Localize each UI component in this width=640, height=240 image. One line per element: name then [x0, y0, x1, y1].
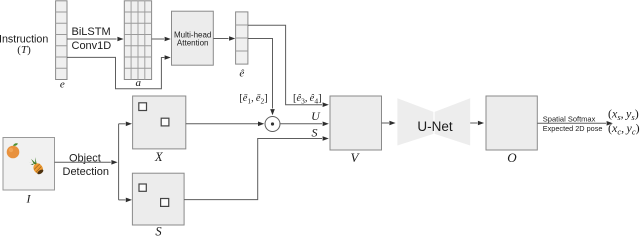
svg-text:[ē1, ē2]: [ē1, ē2] — [239, 93, 268, 105]
wire dot product to V (U) — [280, 122, 329, 127]
block O — [486, 96, 537, 150]
wire U-Net to O — [470, 121, 484, 126]
svg-text:X: X — [154, 150, 164, 164]
svg-text:S: S — [312, 126, 318, 140]
wire attention to e-hat — [213, 36, 235, 41]
svg-text:(xc, yc): (xc, yc) — [608, 121, 640, 136]
label Object Detection — [63, 152, 109, 178]
wire X to dot product — [186, 122, 264, 127]
feature map S — [132, 173, 184, 225]
label Instruction (T) — [0, 33, 48, 56]
svg-text:Expected 2D pose: Expected 2D pose — [543, 124, 603, 133]
svg-text:Detection: Detection — [63, 166, 109, 178]
svg-text:BiLSTM: BiLSTM — [72, 26, 111, 38]
svg-text:a: a — [136, 77, 142, 89]
matrix a — [124, 1, 151, 80]
svg-text:(xs, ys): (xs, ys) — [608, 106, 639, 121]
U-Net hourglass — [397, 98, 470, 145]
wire V to U-Net — [382, 121, 396, 126]
feature map X — [133, 96, 186, 149]
block Multi-head Attention — [172, 11, 214, 65]
svg-text:(T): (T) — [17, 44, 31, 56]
svg-text:U-Net: U-Net — [417, 119, 453, 134]
svg-text:V: V — [351, 150, 361, 165]
wire e-bar to dot product — [248, 39, 275, 116]
embedding vector e — [56, 1, 67, 80]
svg-text:S: S — [155, 225, 162, 238]
image I with objects — [3, 138, 55, 191]
label BiLSTM Conv1D — [72, 26, 112, 52]
svg-text:e: e — [60, 78, 65, 90]
svg-text:[ê3, ê4]: [ê3, ê4] — [293, 93, 322, 105]
svg-text:Attention: Attention — [177, 38, 209, 47]
wire S to V — [184, 136, 329, 199]
svg-text:U: U — [311, 109, 321, 123]
svg-text:Spatial Softmax: Spatial Softmax — [543, 114, 596, 123]
wire I to junction — [55, 160, 118, 165]
wire e to a — [67, 37, 124, 42]
wire e-bar to V top input [e3,e4] — [248, 25, 329, 107]
pineapple fruit — [28, 156, 45, 176]
orange fruit — [7, 143, 20, 158]
wire junction to X and S — [119, 122, 132, 203]
svg-text:ê: ê — [239, 68, 244, 80]
wire e to attention lower input — [67, 55, 171, 88]
attended vector e-bar — [236, 12, 248, 64]
block V — [330, 96, 382, 150]
wire O to output — [537, 121, 613, 126]
svg-text:I: I — [26, 192, 32, 206]
wire a to attention — [152, 37, 171, 42]
dot product node — [265, 117, 280, 132]
svg-text:Conv1D: Conv1D — [72, 40, 112, 52]
svg-text:O: O — [507, 150, 517, 165]
